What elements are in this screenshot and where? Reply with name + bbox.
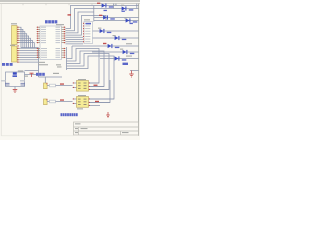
resistor R1 <box>47 83 72 86</box>
grey note above VD6 <box>113 35 116 36</box>
grey note right of VD7 <box>126 43 132 44</box>
grey note left of VCC port <box>24 76 28 77</box>
wire stub top border 2 <box>115 4 117 6</box>
wire bundle U1 to LED array <box>66 6 112 44</box>
LED row VD3 with wire <box>94 15 139 19</box>
wire stub top border 1 <box>113 4 115 9</box>
capacitor C1 <box>1 80 10 85</box>
bus rail right of U1 <box>66 47 68 70</box>
grey note above VD2 <box>121 5 124 6</box>
wire U3 collector riser <box>89 80 110 103</box>
red label VD1 <box>97 3 100 4</box>
sheet background <box>0 0 140 140</box>
section label (blue chinese text) top <box>45 20 57 23</box>
title block <box>74 122 139 135</box>
label text under J2 (blue) <box>2 63 13 66</box>
grey note above VD8 <box>120 49 123 50</box>
grey note right mid <box>126 56 132 57</box>
LED row VD6 with wire <box>93 36 139 40</box>
red label near VD7 <box>103 43 106 44</box>
VCC rail mid (red port) <box>30 73 63 77</box>
optocoupler U2 <box>73 79 110 91</box>
red label VD3 <box>99 15 102 16</box>
window top band <box>0 0 140 2</box>
wire bundle J2 to vertical rail <box>20 48 39 62</box>
blue note below VD4 <box>130 23 133 24</box>
red label near risers <box>68 14 72 15</box>
wire stub right rail r2 <box>136 4 138 9</box>
red ground symbol bottom <box>106 112 109 118</box>
vertical rail wire left of U1 <box>38 48 40 77</box>
crystal Y1 <box>13 70 24 77</box>
sheet border frame <box>0 4 140 136</box>
blue note r2 mid <box>104 10 107 11</box>
ground symbol right (red) <box>129 71 138 78</box>
resistor R2 <box>47 99 72 102</box>
wire crystal to rail <box>25 74 39 76</box>
wire bundle J1 comb to rail <box>20 27 39 47</box>
LED row VD8 with wire <box>92 50 139 54</box>
LED row VD5 with wire <box>93 29 139 33</box>
LED row VD4 with wire <box>94 18 139 22</box>
grey note above VD4 <box>124 17 127 18</box>
LED row VD7 with wire <box>72 44 139 48</box>
grey note near VD5 <box>98 28 101 29</box>
blue label led mid-right <box>123 63 129 65</box>
label between J1 and J2 <box>10 45 19 47</box>
connector J1 (yellow, 8-pin) <box>11 23 20 44</box>
connector J2 (yellow, 7-pin) <box>12 46 21 63</box>
optocoupler U3 <box>73 95 115 109</box>
blue label mid-left <box>36 73 45 76</box>
wire crystal top to rail <box>25 70 39 72</box>
buzzer B1 (yellow) <box>44 77 48 89</box>
LED row VD2 with wire <box>112 6 139 10</box>
grey notes below U1 right <box>56 64 62 67</box>
buzzer B2 (yellow) <box>44 99 48 105</box>
wire loop crystal <box>6 72 25 87</box>
blue note below VD2 <box>122 11 125 12</box>
LED row VD1 with wire <box>94 3 139 7</box>
diagram title (blue chinese) <box>61 113 78 116</box>
bus bundle U1 to output stage <box>67 46 115 99</box>
capacitor C2 <box>20 80 25 85</box>
ground below crystal <box>13 87 18 93</box>
resistor network RP1 <box>83 6 94 44</box>
microcontroller U1 <box>37 24 66 65</box>
LED row VD9 with wire <box>100 56 139 60</box>
